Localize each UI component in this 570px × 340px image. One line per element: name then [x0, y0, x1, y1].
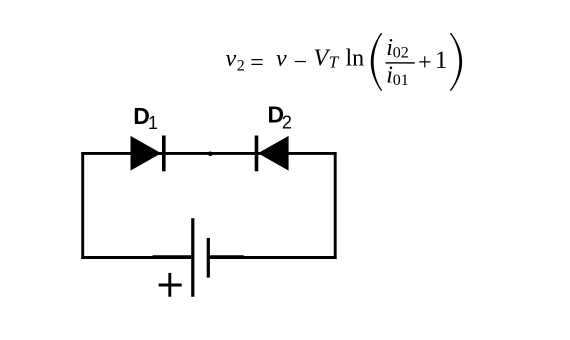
svg-text:ln: ln — [346, 46, 365, 72]
battery lead stub right — [210, 255, 244, 259]
wire left — [81, 152, 84, 259]
diode D1 cathode bar — [162, 136, 166, 172]
wire bottom left — [81, 256, 191, 259]
svg-text:02: 02 — [393, 45, 409, 62]
wire bottom right — [210, 256, 337, 259]
svg-text:1: 1 — [435, 47, 448, 74]
svg-text:01: 01 — [393, 72, 409, 89]
wire top — [81, 152, 336, 155]
diode D2 triangle — [258, 136, 289, 171]
svg-text:2: 2 — [282, 113, 292, 133]
equation right parenthesis — [451, 33, 462, 90]
equation fraction bar — [386, 62, 415, 63]
svg-text:2: 2 — [237, 58, 245, 75]
wire right — [334, 152, 337, 259]
svg-text:1: 1 — [148, 113, 158, 133]
battery long plate (positive) — [191, 218, 194, 297]
diode D1 triangle — [131, 136, 162, 171]
diode D2 cathode bar — [255, 136, 259, 172]
svg-text:v: v — [226, 46, 237, 72]
svg-text:T: T — [329, 53, 340, 72]
battery short plate (negative) — [207, 238, 210, 278]
svg-text:+: + — [418, 50, 432, 76]
svg-text:v: v — [276, 46, 287, 72]
svg-text:−: − — [294, 49, 308, 75]
equation left parenthesis — [372, 33, 382, 90]
battery lead stub left — [153, 255, 192, 259]
node junction dot between diodes — [208, 152, 213, 157]
svg-text:=: = — [250, 50, 264, 76]
battery plus sign — [159, 284, 182, 287]
